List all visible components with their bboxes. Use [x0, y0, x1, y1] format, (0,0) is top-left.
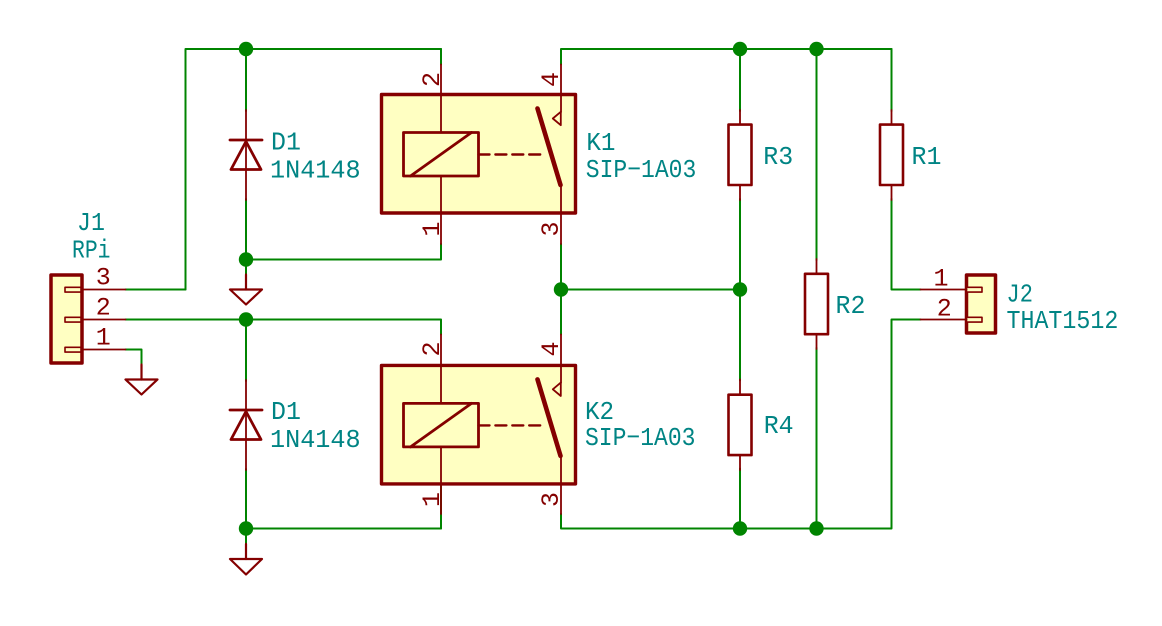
- svg-text:1: 1: [96, 324, 111, 353]
- connector J2: [921, 275, 996, 333]
- svg-text:3: 3: [537, 221, 566, 236]
- svg-text:1N4148: 1N4148: [270, 155, 361, 185]
- wire R3 top: [739, 49, 741, 111]
- ground mid (D1a): [230, 275, 262, 305]
- wire D1b top: [245, 320, 247, 382]
- relay K2: [382, 335, 576, 515]
- junction at (246,49): [239, 42, 253, 56]
- svg-text:SIP−1A03: SIP−1A03: [586, 155, 697, 185]
- wire bottom-left: [246, 514, 441, 529]
- wire bottom-right: [561, 320, 921, 529]
- junction at (561,289.5): [554, 282, 568, 296]
- svg-text:THAT1512: THAT1512: [1007, 306, 1119, 336]
- connector J1: [51, 275, 126, 363]
- wire R4 top: [739, 290, 741, 381]
- svg-text:1: 1: [418, 492, 447, 507]
- wire top-left horizontal: [186, 49, 442, 290]
- junction at (740,528.5): [733, 521, 747, 535]
- wire R4 bottom: [739, 469, 741, 529]
- junction at (816.5,49): [809, 42, 823, 56]
- wire K2 pin4 stub: [560, 290, 562, 335]
- svg-text:J2: J2: [1007, 280, 1033, 310]
- wire K1 pin2 drop: [440, 49, 442, 65]
- junction at (246,319.5): [239, 312, 253, 326]
- wire K1 pin3 to mid row: [561, 244, 740, 290]
- svg-text:R3: R3: [763, 142, 793, 172]
- svg-text:1: 1: [418, 221, 447, 236]
- wire R1 top: [891, 49, 893, 111]
- wire R2 bottom: [816, 348, 818, 529]
- wire J1 pin3 to riser: [126, 289, 186, 291]
- junction at (246,259.5): [239, 252, 253, 266]
- wire J1 pin2 row: [126, 320, 442, 335]
- resistor R2: [805, 259, 828, 349]
- relay K1: [382, 65, 576, 245]
- svg-text:3: 3: [96, 264, 111, 293]
- svg-text:4: 4: [537, 72, 566, 87]
- wire ground stub mid: [245, 260, 247, 275]
- svg-text:2: 2: [418, 72, 447, 87]
- svg-text:2: 2: [96, 294, 111, 323]
- ground below J1 pin1: [126, 365, 158, 395]
- junction at (740,289.5): [733, 282, 747, 296]
- svg-text:R4: R4: [764, 411, 794, 441]
- svg-text:3: 3: [537, 492, 566, 507]
- junction at (740,49): [733, 42, 747, 56]
- svg-text:SIP−1A03: SIP−1A03: [585, 423, 696, 453]
- svg-text:D1: D1: [271, 128, 301, 158]
- diode D1 upper: [230, 110, 262, 200]
- ground bottom: [230, 544, 262, 575]
- wire R3 bottom: [739, 199, 741, 290]
- wire top-right horizontal: [561, 49, 892, 65]
- svg-text:1N4148: 1N4148: [270, 425, 361, 455]
- svg-text:RPi: RPi: [72, 236, 111, 266]
- svg-text:R1: R1: [912, 142, 942, 172]
- wire R2 top: [816, 49, 818, 260]
- diode D1 lower: [230, 380, 262, 470]
- resistor R3: [729, 110, 752, 200]
- wire R1 bottom to J2 pin1: [892, 199, 921, 290]
- svg-text:D1: D1: [271, 397, 301, 427]
- resistor R1: [880, 110, 903, 200]
- wire K1 pin1 row: [246, 244, 441, 260]
- svg-text:2: 2: [418, 341, 447, 356]
- svg-text:K1: K1: [586, 128, 615, 158]
- wire K2 pin1 stub: [440, 484, 442, 529]
- svg-text:2: 2: [937, 295, 952, 324]
- wire D1b bottom: [245, 469, 247, 529]
- svg-text:J1: J1: [77, 208, 105, 238]
- wire D1a bottom: [245, 199, 247, 260]
- svg-text:R2: R2: [836, 291, 866, 321]
- junction at (816.5,528.5): [809, 521, 823, 535]
- svg-text:4: 4: [537, 341, 566, 356]
- resistor R4: [729, 380, 752, 471]
- wire ground stub bottom: [245, 529, 247, 545]
- wire D1a top: [245, 49, 247, 111]
- wire J1 pin1 to ground: [126, 350, 142, 365]
- svg-text:1: 1: [933, 265, 948, 294]
- junction at (246,528.5): [239, 521, 253, 535]
